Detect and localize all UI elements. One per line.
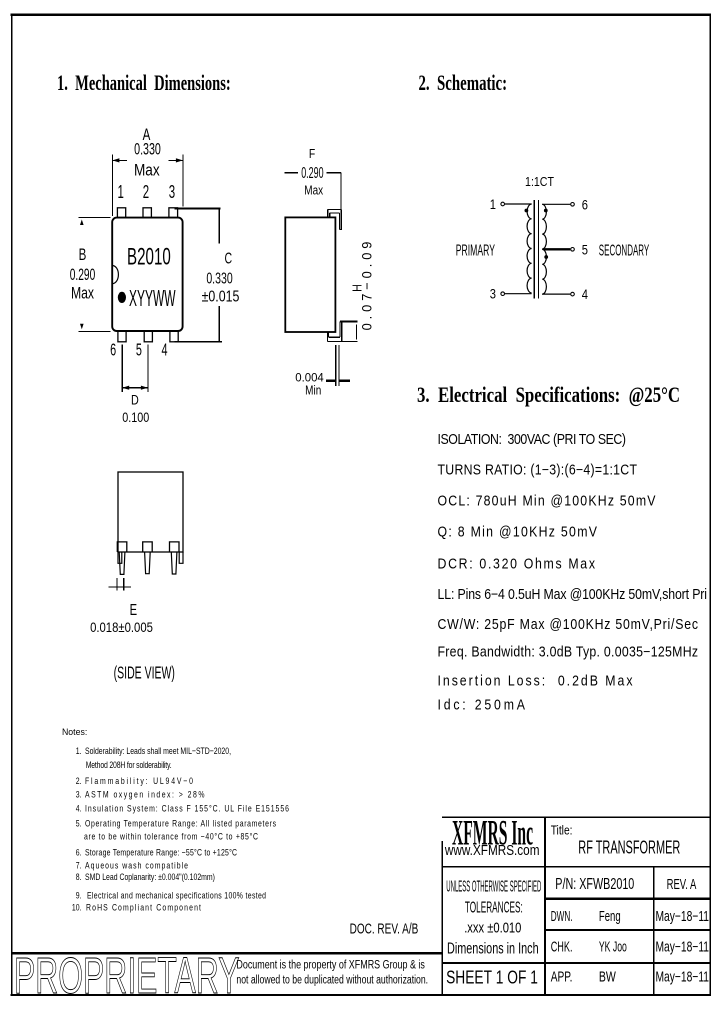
svg-text:ASTM oxygen index: > 28%: ASTM oxygen index: > 28% [85,790,204,800]
svg-text:3: 3 [490,287,496,302]
wire pin3 to primary [505,293,532,295]
svg-text:PROPRIETARY: PROPRIETARY [14,949,239,1005]
svg-text:TOLERANCES:: TOLERANCES: [465,900,523,917]
svg-text:LL: Pins 6−4 0.5uH Max @100KHz: LL: Pins 6−4 0.5uH Max @100KHz 50mV,shor… [438,586,708,602]
svg-text:REV. A: REV. A [667,876,697,893]
pin 1 (top view) [117,208,125,218]
svg-text:9.: 9. [76,891,82,901]
dimension B lines [79,217,111,331]
svg-text:0.290: 0.290 [301,163,323,182]
svg-text:0.07−0.09: 0.07−0.09 [359,242,374,331]
svg-text:1:1CT: 1:1CT [525,175,554,189]
component body B2010 (top view) [112,218,182,331]
svg-text:3.: 3. [76,790,82,800]
svg-text:DOC. REV. A/B: DOC. REV. A/B [350,921,419,938]
svg-text:B: B [79,246,87,265]
svg-text:Flammability: UL94V−0: Flammability: UL94V−0 [85,776,193,786]
svg-text:0.004: 0.004 [295,371,324,384]
svg-text:May−18−11: May−18−11 [656,909,710,925]
svg-text:Dimensions in Inch: Dimensions in Inch [447,941,539,958]
svg-text:2.: 2. [76,776,82,786]
svg-text:SHEET 1 OF 1: SHEET 1 OF 1 [446,968,538,988]
svg-text:0.018±0.005: 0.018±0.005 [90,619,153,635]
polarity dot secondary lower [544,255,548,259]
svg-text:C: C [224,249,232,267]
svg-text:1: 1 [118,182,124,202]
svg-text:Notes:: Notes: [62,727,87,737]
svg-text:Feng: Feng [599,908,621,925]
pin 6 (top view) [118,331,126,342]
svg-text:3. Electrical Specifications: 3. Electrical Specifications: @25°C [417,384,680,408]
pin 4 (top view) [170,331,178,342]
svg-text:2: 2 [143,182,149,202]
svg-text:5: 5 [136,341,142,360]
svg-text:Min: Min [305,385,321,398]
svg-text:PRIMARY: PRIMARY [456,241,495,260]
svg-text:8.: 8. [76,872,82,882]
dimension C label [202,249,240,304]
svg-text:Freq. Bandwidth: 3.0dB Typ. 0.: Freq. Bandwidth: 3.0dB Typ. 0.0035−125MH… [438,644,699,660]
svg-text:www.XFMRS.com: www.XFMRS.com [444,843,539,859]
svg-text:SECONDARY: SECONDARY [599,241,650,259]
dimension B arrowheads [80,220,84,330]
pin1 dot marker [118,292,126,303]
svg-text:APP.: APP. [551,969,573,986]
svg-text:YK Joo: YK Joo [599,939,627,956]
svg-text:6.: 6. [76,848,82,858]
dimension F label [301,147,323,198]
svg-text:CHK.: CHK. [551,939,573,956]
dimension A extension lines [112,155,182,217]
svg-text:not allowed to be duplicated w: not allowed to be duplicated without aut… [236,975,428,987]
pin 1 terminal circle [501,202,505,206]
pin 4 terminal circle [571,292,575,296]
polarity notch (left edge) [113,266,119,284]
svg-text:ISOLATION: 300VAC (PRI TO SEC: ISOLATION: 300VAC (PRI TO SEC) [438,431,627,447]
svg-text:Max: Max [71,285,95,303]
svg-text:0.330: 0.330 [134,140,161,159]
svg-text:Title:: Title: [551,824,573,838]
pin 3 terminal circle [501,292,505,296]
wire pin6 to secondary [542,203,570,205]
pin 5 terminal circle [571,248,575,252]
svg-text:6: 6 [582,197,588,212]
svg-text:Idc: 250mA: Idc: 250mA [438,697,525,713]
svg-text:P/N: XFWB2010: P/N: XFWB2010 [555,876,634,893]
front pin middle: shoulder and leg [143,542,153,552]
dimension D label [122,392,149,425]
HEADINGS [57,71,680,408]
pin 5 (top view) [144,331,152,342]
top gull-wing lead (side view) [328,209,342,229]
svg-text:Insertion Loss: 0.2dB Max: Insertion Loss: 0.2dB Max [438,673,633,689]
pin 3 (top view) [169,208,178,218]
svg-text:OCL: 780uH Min @100KHz 50mV: OCL: 780uH Min @100KHz 50mV [438,493,656,509]
body outline (side view) [285,217,335,332]
svg-text:Electrical and mechanical spec: Electrical and mechanical specifications… [87,891,266,901]
dimension E lines [109,578,131,591]
svg-text:XYYWW: XYYWW [129,285,176,311]
svg-text:±0.015: ±0.015 [202,287,240,305]
svg-text:Document is the property of XF: Document is the property of XFMRS Group … [236,959,425,971]
pin 2 (top view) [143,208,151,218]
svg-text:3: 3 [169,182,175,202]
svg-text:TURNS RATIO: (1−3):(6−4)=1:1CT: TURNS RATIO: (1−3):(6−4)=1:1CT [438,462,637,478]
svg-text:4: 4 [161,341,167,360]
svg-text:1.: 1. [76,746,82,756]
svg-text:RoHS Compliant Component: RoHS Compliant Component [86,902,202,912]
dimension B label [70,246,96,303]
svg-text:UNLESS OTHERWISE SPECIFIED: UNLESS OTHERWISE SPECIFIED [446,879,541,896]
left skirt [118,552,122,563]
wire pin4 to secondary [542,293,570,295]
core (two bars) [534,200,538,298]
bottom gull-wing lead (side view) [328,322,358,342]
body outline (front view) [118,472,183,552]
svg-text:0.330: 0.330 [206,269,232,287]
dimension H label (rotated) [351,242,375,331]
dimension 0.004 lines [326,345,350,386]
svg-text:0.290: 0.290 [70,264,96,283]
front pin right: shoulder and leg [170,542,180,552]
svg-text:Insulation System: Class F 155: Insulation System: Class F 155°C. UL Fil… [85,804,289,814]
svg-text:Max: Max [304,185,323,198]
svg-text:6: 6 [110,341,116,360]
svg-text:5: 5 [582,242,588,257]
svg-text:D: D [131,392,139,407]
svg-text:Operating Temperature Range: A: Operating Temperature Range: All listed … [85,819,276,829]
svg-text:.xxx ±0.010: .xxx ±0.010 [464,920,521,937]
svg-text:(SIDE VIEW): (SIDE VIEW) [114,664,175,684]
svg-text:RF TRANSFORMER: RF TRANSFORMER [578,837,680,858]
svg-text:5.: 5. [76,819,82,829]
svg-text:DWN.: DWN. [551,908,573,925]
svg-text:7.: 7. [76,861,82,871]
pin 6 terminal circle [571,203,575,207]
svg-text:Method 208H for solderability.: Method 208H for solderability. [86,760,172,770]
svg-text:SMD Lead Coplanarity: ±0.004"(: SMD Lead Coplanarity: ±0.004"(0.102mm) [85,872,215,882]
dimension C lines [174,208,222,341]
dimension D lines [122,344,148,392]
dimension A arrowheads [112,158,182,162]
polarity dot secondary top [544,209,548,213]
TITLEBLOCK-LINES [11,817,710,995]
svg-text:Solderability: Leads shall mee: Solderability: Leads shall meet MIL−STD−… [85,746,231,756]
wire pin1 to primary [505,203,532,205]
secondary winding upper half [542,204,546,249]
wire pin5 center tap (thick) [544,248,571,250]
svg-text:4: 4 [582,287,588,302]
svg-text:DCR: 0.320 Ohms Max: DCR: 0.320 Ohms Max [438,556,596,572]
svg-text:May−18−11: May−18−11 [656,970,710,986]
front pin left: shoulder and leg [117,542,127,552]
dimension F lines [285,173,341,210]
svg-text:CW/W: 25pF Max @100KHz 50mV,Pr: CW/W: 25pF Max @100KHz 50mV,Pri/Sec [438,616,699,632]
svg-text:BW: BW [599,969,617,986]
svg-text:Aqueous wash compatible: Aqueous wash compatible [85,861,188,871]
dimension A label [134,126,161,180]
primary winding [527,204,532,293]
svg-text:B2010: B2010 [127,244,171,270]
svg-text:0.100: 0.100 [122,410,149,425]
svg-text:1: 1 [490,197,496,212]
svg-text:4.: 4. [76,804,82,814]
dimension 0.004 label [295,371,324,398]
svg-text:1. Mechanical Dimensions:: 1. Mechanical Dimensions: [57,71,231,96]
svg-text:May−18−11: May−18−11 [656,940,710,956]
svg-text:10.: 10. [72,902,82,912]
svg-text:F: F [309,147,315,161]
dimension D arrowheads [122,386,148,390]
svg-text:Storage Temperature Range: −55: Storage Temperature Range: −55°C to +125… [85,848,237,858]
right skirt [179,552,183,563]
secondary winding lower half [542,249,546,294]
svg-text:2. Schematic:: 2. Schematic: [419,71,508,96]
svg-text:Max: Max [134,161,160,180]
svg-text:are to be within tolerance fro: are to be within tolerance from −40°C to… [84,832,258,842]
polarity dot primary top [525,209,529,213]
svg-text:E: E [130,600,137,619]
dimension E label [90,600,153,636]
svg-text:Q: 8 Min @10KHz 50mV: Q: 8 Min @10KHz 50mV [438,524,597,540]
